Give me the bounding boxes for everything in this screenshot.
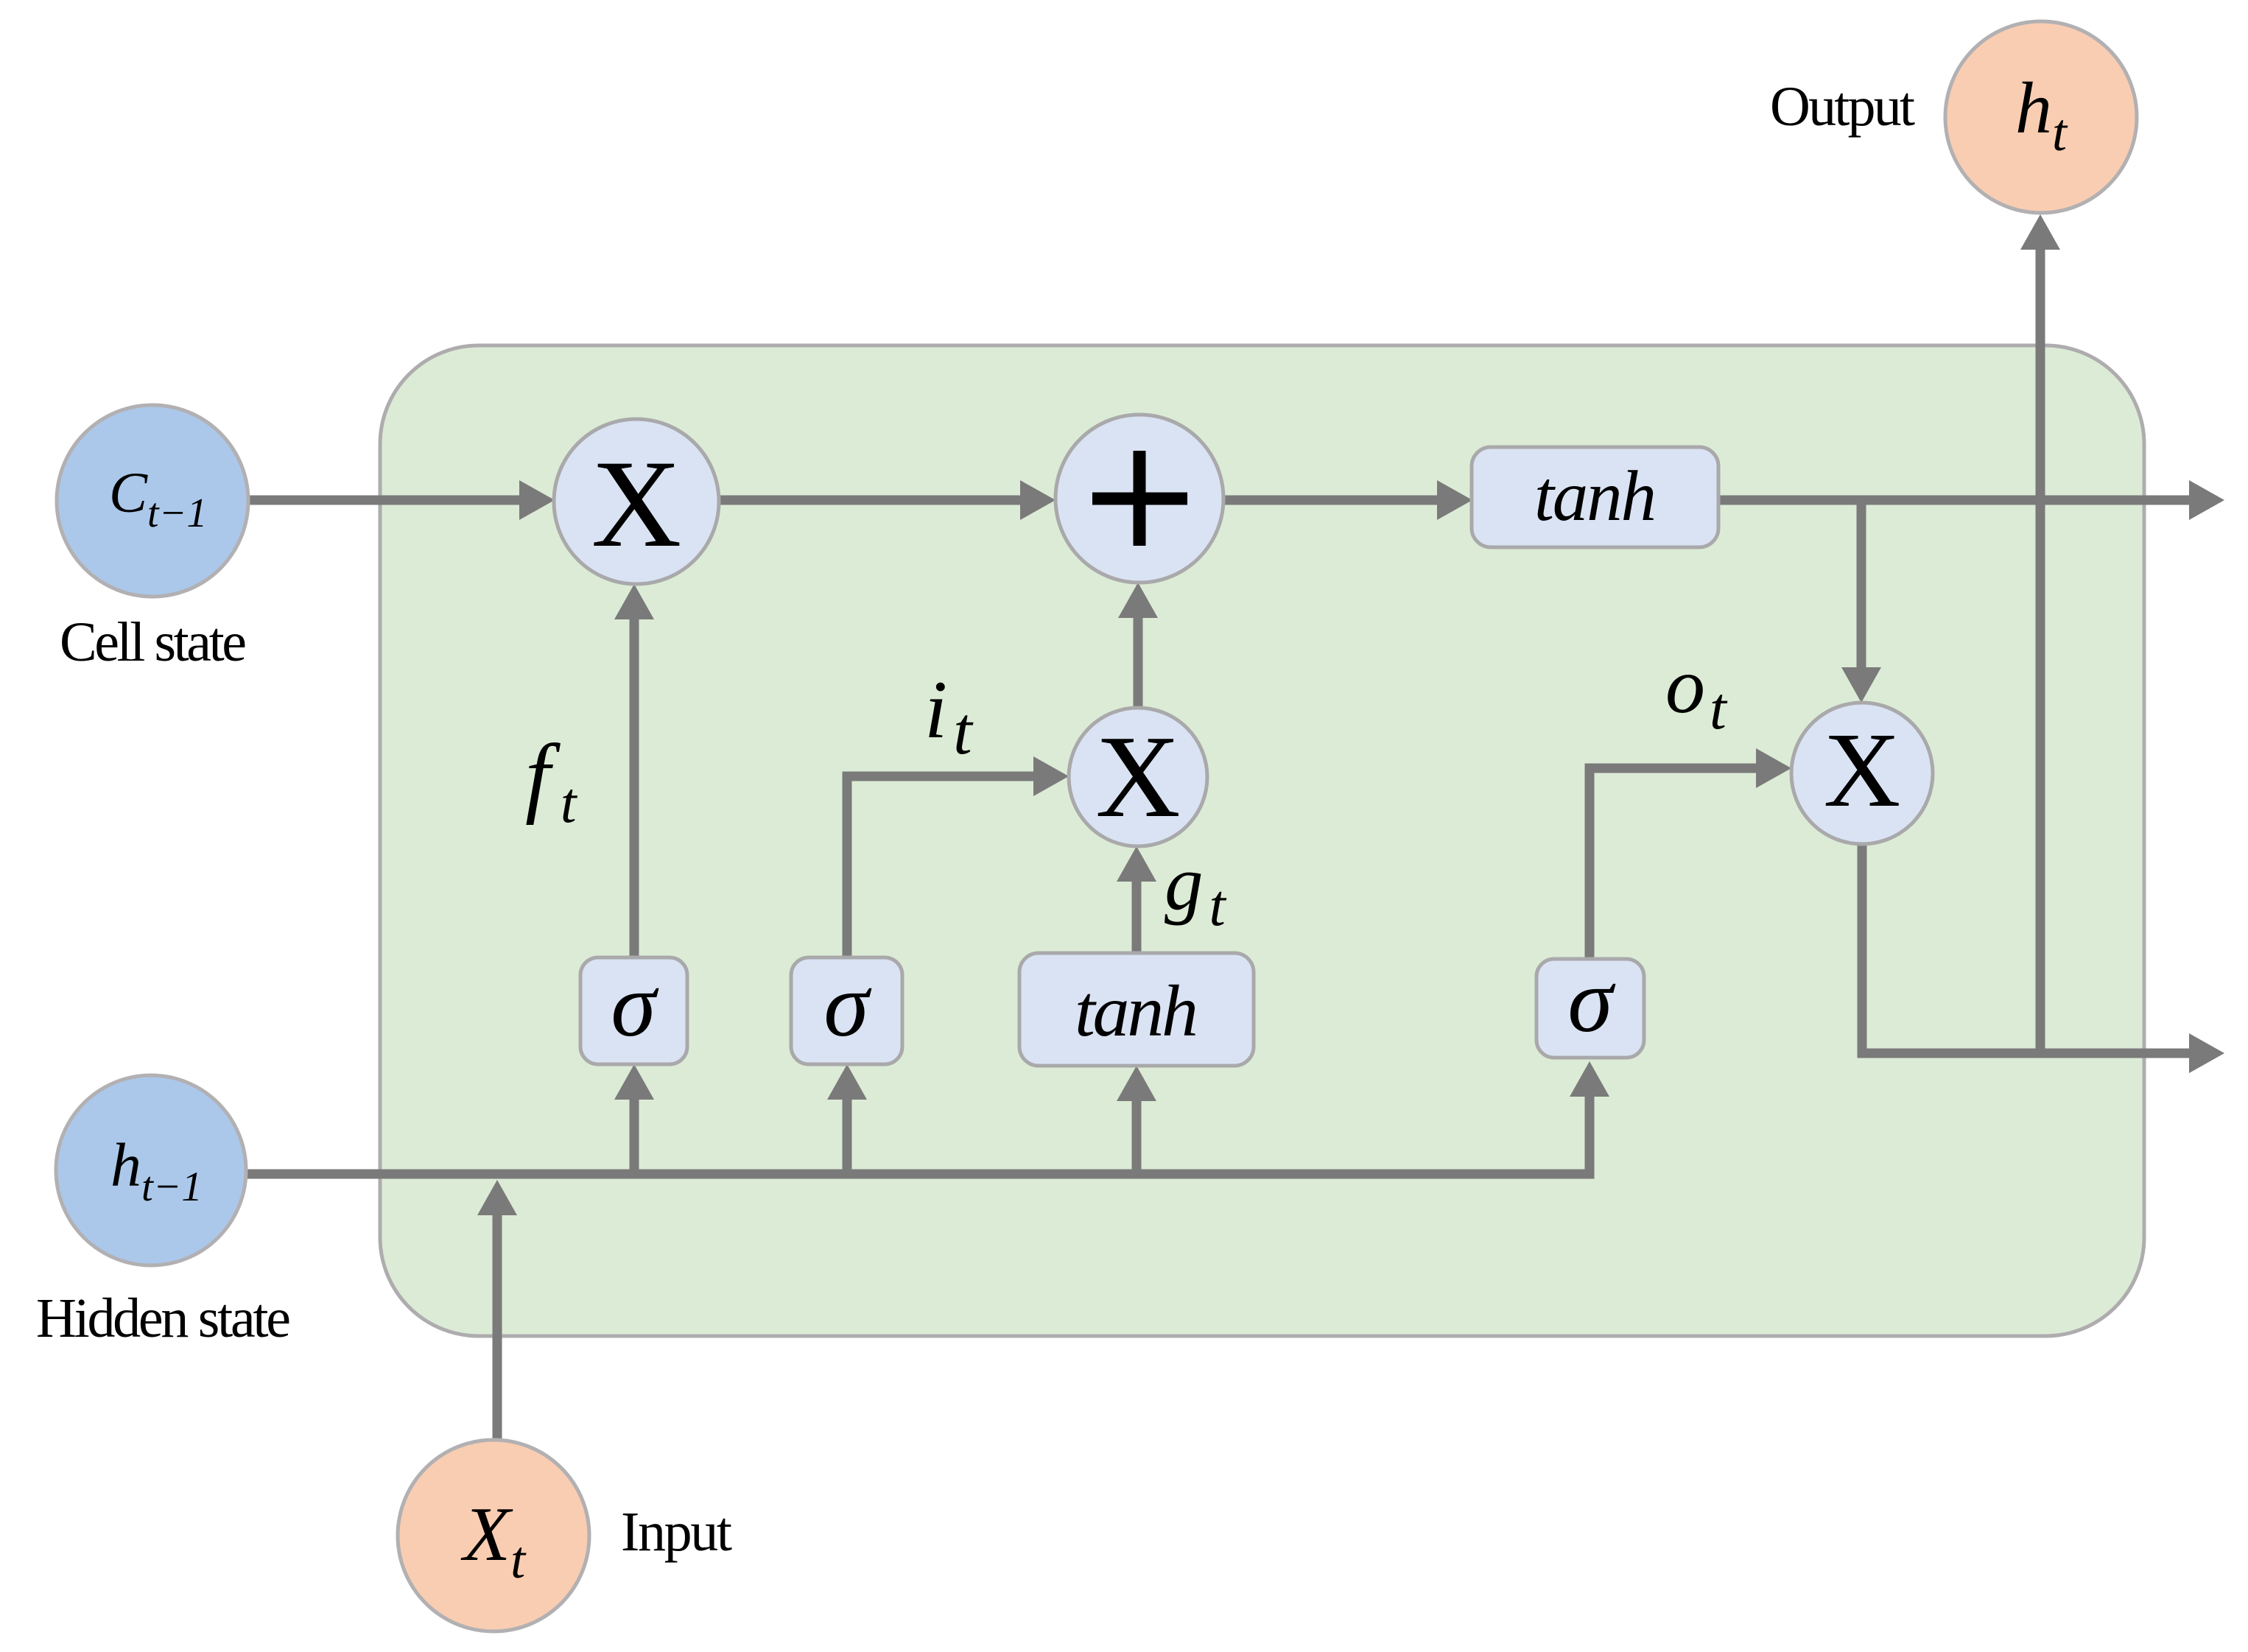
svg-text:X: X [1824, 711, 1901, 829]
wire: sigma2 elbow to X2 (i_t) [847, 776, 1035, 957]
op multiply X2 (input gate) [1069, 708, 1207, 846]
svg-text:σ: σ [823, 955, 872, 1055]
svg-text:X: X [1095, 711, 1181, 842]
wire: X2 up to plus [1134, 616, 1143, 708]
LSTM cell body (green rounded rectangle) [380, 345, 2144, 1336]
arrowhead into X3 top [1841, 667, 1881, 703]
wire: X3 down then right to hidden-state output [1862, 844, 2191, 1053]
wire: X1 to plus [719, 496, 1022, 505]
arrowhead into X3 left [1756, 748, 1791, 788]
svg-text:X: X [591, 435, 682, 573]
svg-text:σ: σ [611, 955, 659, 1055]
node h_t output circle [1945, 21, 2137, 213]
op multiply X3 (output gate) [1791, 703, 1933, 844]
wire: cell-state line C_{t-1} to multiply X1 [248, 496, 521, 505]
svg-text:Input: Input [621, 1501, 732, 1563]
wire: hidden-state line h_{t-1} across, elbow up to sigma3 [243, 1095, 1590, 1174]
wire: plus to tanh box [1224, 496, 1439, 505]
svg-text:Output: Output [1770, 76, 1915, 138]
arrowhead into tanh2 bottom [1117, 1066, 1156, 1101]
wire: branch up to tanh2 [1132, 1100, 1142, 1170]
wire: branch down from cell line to X3 [1857, 500, 1866, 669]
node C_{t-1} cell state input circle [57, 405, 248, 597]
svg-text:tanh: tanh [1075, 970, 1198, 1052]
gate box sigma1 (forget gate) [580, 957, 687, 1064]
wire: branch up to h_t output circle [2036, 247, 2045, 1053]
op multiply X1 (forget gate) [554, 419, 719, 584]
gate box tanh2 (candidate) [1019, 953, 1254, 1066]
arrowhead into tanh1 [1437, 480, 1472, 520]
arrowhead hidden state out [2189, 1033, 2224, 1073]
plus sign [1092, 451, 1187, 546]
arrowhead input [477, 1180, 517, 1215]
wire: branch up to sigma1 [630, 1098, 639, 1170]
wire: sigma1 up to X1 [630, 618, 639, 957]
op add (plus) [1055, 415, 1223, 583]
gate box sigma2 (input gate) [791, 957, 902, 1064]
svg-text:σ: σ [1567, 950, 1616, 1051]
arrowhead into X2 left [1033, 756, 1069, 796]
arrowhead into sigma3 bottom [1570, 1061, 1609, 1097]
node h_{t-1} hidden state input circle [56, 1075, 246, 1265]
wire: branch up to sigma2 [843, 1098, 852, 1170]
arrowhead cell state out [2189, 480, 2224, 520]
wire: input X_t up into cell [493, 1214, 502, 1441]
arrowhead into X1 bottom [614, 584, 654, 619]
arrowhead into X1 [519, 480, 555, 520]
arrowhead into plus bottom [1118, 583, 1158, 618]
gate box sigma3 (output gate) [1536, 959, 1644, 1058]
node X_t input circle [398, 1440, 589, 1631]
arrowhead into sigma2 bottom [827, 1064, 867, 1100]
wire: tanh1 to right edge output C_t [1718, 496, 2191, 505]
svg-text:Hidden state: Hidden state [36, 1287, 291, 1349]
arrowhead into sigma1 bottom [614, 1064, 654, 1100]
gate box tanh1 (cell output activation) [1472, 447, 1718, 547]
svg-text:Cell state: Cell state [60, 611, 247, 673]
wire: sigma3 elbow to X3 (o_t) [1590, 768, 1757, 959]
svg-text:tanh: tanh [1534, 457, 1657, 535]
arrowhead into plus [1020, 480, 1055, 520]
arrowhead into h_t [2020, 214, 2060, 250]
arrowhead into X2 bottom [1117, 846, 1156, 882]
wire: tanh2 up to X2 [1132, 880, 1142, 953]
